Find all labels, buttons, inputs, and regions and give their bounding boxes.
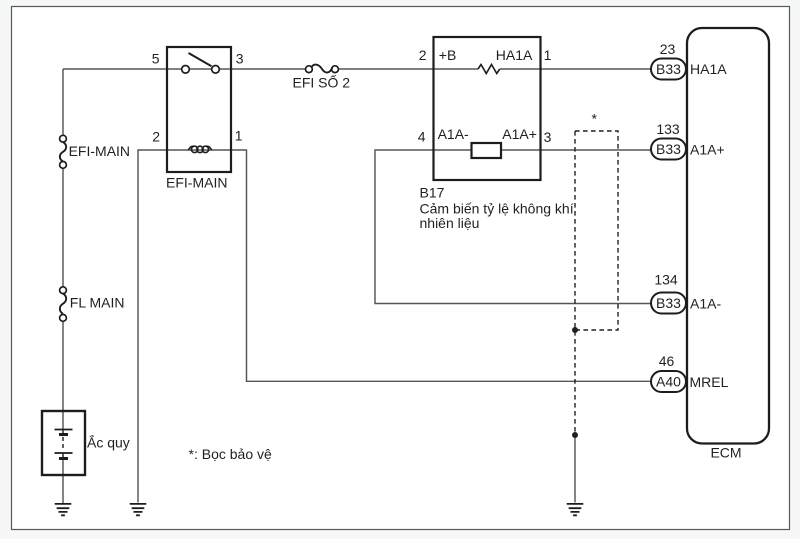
svg-text:3: 3 (236, 50, 244, 66)
svg-text:2: 2 (419, 47, 427, 63)
svg-text:A40: A40 (656, 373, 681, 389)
svg-text:B33: B33 (656, 141, 681, 157)
svg-text:23: 23 (660, 41, 676, 57)
svg-text:A1A+: A1A+ (502, 126, 537, 142)
svg-text:B33: B33 (656, 61, 681, 77)
svg-text:EFI-MAIN: EFI-MAIN (69, 143, 130, 159)
svg-text:MREL: MREL (690, 374, 729, 390)
svg-text:ECM: ECM (710, 445, 741, 461)
svg-text:nhiên liệu: nhiên liệu (420, 215, 480, 231)
svg-text:A1A+: A1A+ (690, 142, 725, 158)
svg-text:B17: B17 (420, 185, 445, 201)
svg-text:+B: +B (439, 47, 457, 63)
svg-text:A1A-: A1A- (690, 296, 721, 312)
svg-text:2: 2 (152, 128, 160, 144)
svg-text:FL MAIN: FL MAIN (70, 295, 125, 311)
svg-text:46: 46 (659, 353, 675, 369)
svg-text:1: 1 (235, 128, 243, 144)
svg-text:HA1A: HA1A (496, 47, 533, 63)
svg-text:Ắc quy: Ắc quy (87, 434, 130, 451)
svg-text:*: * (592, 111, 598, 127)
svg-text:EFI SỐ 2: EFI SỐ 2 (293, 74, 351, 91)
svg-text:A1A-: A1A- (438, 126, 469, 142)
svg-text:3: 3 (544, 129, 552, 145)
svg-text:B33: B33 (656, 295, 681, 311)
svg-text:133: 133 (656, 121, 680, 137)
svg-text:4: 4 (418, 129, 426, 145)
svg-text:1: 1 (544, 47, 552, 63)
svg-text:*: Bọc bảo vệ: *: Bọc bảo vệ (189, 446, 272, 462)
svg-text:EFI-MAIN: EFI-MAIN (166, 175, 227, 191)
svg-text:134: 134 (654, 272, 678, 288)
svg-text:5: 5 (152, 50, 160, 66)
svg-text:HA1A: HA1A (690, 61, 727, 77)
